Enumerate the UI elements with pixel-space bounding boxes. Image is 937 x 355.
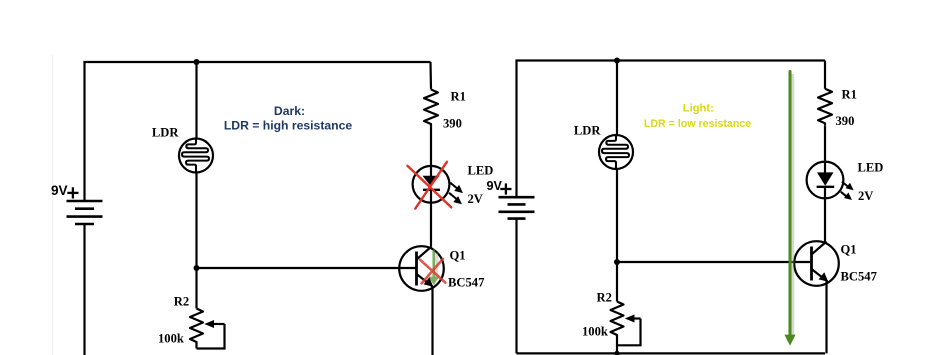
transistor Q1 BC547 (left circuit) xyxy=(399,246,444,291)
wire LED to Q1 (left circuit) xyxy=(430,203,432,247)
label R1 (right circuit) xyxy=(842,87,857,101)
svg-text:LED: LED xyxy=(858,161,884,175)
note text Light (right circuit) xyxy=(644,102,751,130)
wire LED to Q1 (right circuit) xyxy=(824,199,826,242)
wire base lead (right circuit) xyxy=(617,261,812,263)
svg-text:R1: R1 xyxy=(842,87,857,101)
LDR photoresistor (left circuit) xyxy=(179,139,213,173)
wire R1 to LED (left circuit) xyxy=(430,127,432,166)
red X over LED (left circuit) xyxy=(407,162,451,209)
label 100k (left circuit) xyxy=(158,332,184,346)
plus terminal symbol (left battery) xyxy=(67,187,78,198)
node A (top junction, left circuit) xyxy=(194,59,200,65)
svg-text:R1: R1 xyxy=(451,89,466,103)
battery 9V (right circuit) xyxy=(499,197,535,218)
label BC547 (left circuit) xyxy=(448,276,484,290)
label 9V (right battery) xyxy=(487,179,503,193)
svg-text:390: 390 xyxy=(836,114,855,128)
svg-text:LDR: LDR xyxy=(574,124,601,138)
potentiometer R2 (right circuit) xyxy=(611,302,641,354)
battery 9V (left circuit) xyxy=(67,201,103,224)
svg-text:Q1: Q1 xyxy=(450,249,466,263)
svg-text:2V: 2V xyxy=(858,189,873,203)
faint page gridline xyxy=(52,55,54,355)
label LED (left circuit) xyxy=(468,164,494,178)
wire right branch top (right circuit) xyxy=(824,61,826,89)
svg-text:9V: 9V xyxy=(487,179,503,193)
svg-text:100k: 100k xyxy=(582,325,608,339)
svg-text:9V: 9V xyxy=(51,183,68,198)
label Q1 (left circuit) xyxy=(450,249,466,263)
note text Dark (left circuit) xyxy=(224,104,353,132)
LED light arrows (right circuit) xyxy=(841,182,854,200)
label R1 (left circuit) xyxy=(451,89,466,103)
transistor Q1 BC547 (right circuit) xyxy=(794,241,839,286)
svg-text:Light:: Light: xyxy=(683,102,714,114)
label 2V (left circuit) xyxy=(468,192,483,206)
label 390 (right circuit) xyxy=(836,114,855,128)
node A (top junction, right circuit) xyxy=(614,58,620,64)
plus terminal symbol (right battery) xyxy=(500,183,511,194)
potentiometer R2 (left circuit) xyxy=(190,309,225,349)
node C (pot bottom junction, right circuit) xyxy=(614,351,619,355)
resistor R1 (left circuit) xyxy=(424,90,438,127)
wire right branch top (left circuit) xyxy=(429,62,432,90)
svg-text:R2: R2 xyxy=(174,294,189,308)
label R2 (left circuit) xyxy=(174,294,189,308)
label 100k (right circuit) xyxy=(582,325,608,339)
label Q1 (right circuit) xyxy=(841,243,857,257)
label 2V (right circuit) xyxy=(858,189,873,203)
wire R1 to LED (right circuit) xyxy=(824,126,826,162)
svg-text:LDR: LDR xyxy=(152,126,179,140)
label R2 (right circuit) xyxy=(597,291,612,305)
resistor R1 (right circuit) xyxy=(818,89,832,126)
svg-text:BC547: BC547 xyxy=(841,270,877,284)
svg-text:100k: 100k xyxy=(158,332,184,346)
wire LDR branch lower (left circuit) xyxy=(195,173,197,309)
wire emitter to bottom rail (right circuit) xyxy=(825,282,827,354)
LDR photoresistor (right circuit) xyxy=(599,135,633,169)
wire battery negative to bottom rail (right circuit) xyxy=(515,219,517,354)
svg-text:2V: 2V xyxy=(468,192,483,206)
node B (base junction, right circuit) xyxy=(614,259,620,265)
LED light arrows (left circuit) xyxy=(449,183,463,205)
svg-text:Q1: Q1 xyxy=(841,243,857,257)
label 390 (left circuit) xyxy=(443,117,462,131)
faded green current arrow over Q1 (left circuit) xyxy=(429,251,439,286)
svg-text:390: 390 xyxy=(443,117,462,131)
wire LDR branch upper (left circuit) xyxy=(195,62,197,139)
wire top+left rail (right circuit) xyxy=(517,61,826,197)
wire emitter to bottom (left circuit) xyxy=(431,287,433,355)
label 9V (left battery) xyxy=(51,183,68,198)
svg-text:R2: R2 xyxy=(597,291,612,305)
LED diode (right circuit) xyxy=(807,162,844,199)
label LDR (right circuit) xyxy=(574,124,601,138)
svg-text:BC547: BC547 xyxy=(448,276,484,290)
wire LDR branch upper (right circuit) xyxy=(616,61,618,136)
wire bottom rail (right circuit) xyxy=(517,352,826,354)
LED diode (left circuit) xyxy=(413,166,450,203)
svg-text:Dark:: Dark: xyxy=(274,104,305,118)
svg-text:LDR = high resistance: LDR = high resistance xyxy=(224,118,353,132)
wire top+left rail (left circuit) xyxy=(85,62,431,201)
wire LDR branch lower (right circuit) xyxy=(616,169,618,302)
label LDR (left circuit) xyxy=(152,126,179,140)
red X over Q1 (left circuit) xyxy=(420,259,445,284)
wire base lead (left circuit) xyxy=(197,267,417,269)
label LED (right circuit) xyxy=(858,161,884,175)
node B (base junction, left circuit) xyxy=(194,265,200,271)
svg-text:LDR = low resistance: LDR = low resistance xyxy=(644,118,751,130)
svg-text:LED: LED xyxy=(468,164,494,178)
wire battery negative to bottom (left circuit) xyxy=(83,224,85,355)
label BC547 (right circuit) xyxy=(841,270,877,284)
green current flow arrow (right circuit) xyxy=(784,72,795,346)
